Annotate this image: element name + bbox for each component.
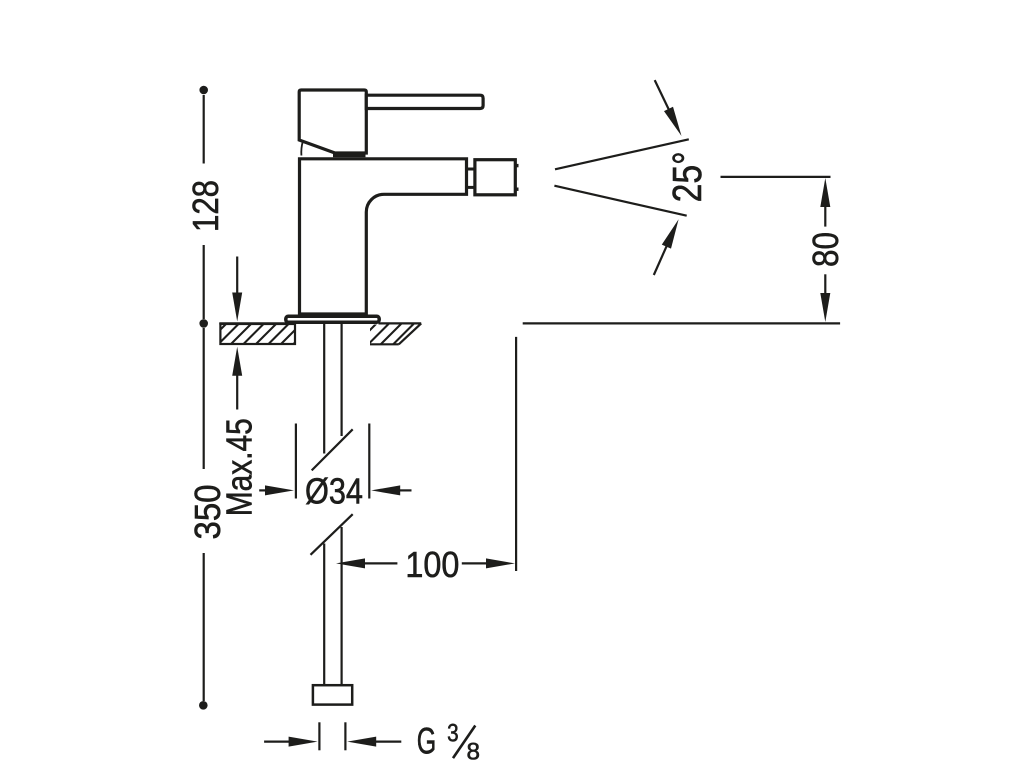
svg-text:Ø34: Ø34 <box>305 470 363 511</box>
svg-text:3: 3 <box>447 719 459 747</box>
svg-text:8: 8 <box>467 738 481 765</box>
svg-text:128: 128 <box>185 180 226 232</box>
svg-text:100: 100 <box>405 544 459 585</box>
svg-text:Max.45: Max.45 <box>219 418 260 516</box>
svg-text:G: G <box>417 721 437 762</box>
svg-text:25°: 25° <box>664 151 710 202</box>
svg-text:80: 80 <box>805 232 846 267</box>
